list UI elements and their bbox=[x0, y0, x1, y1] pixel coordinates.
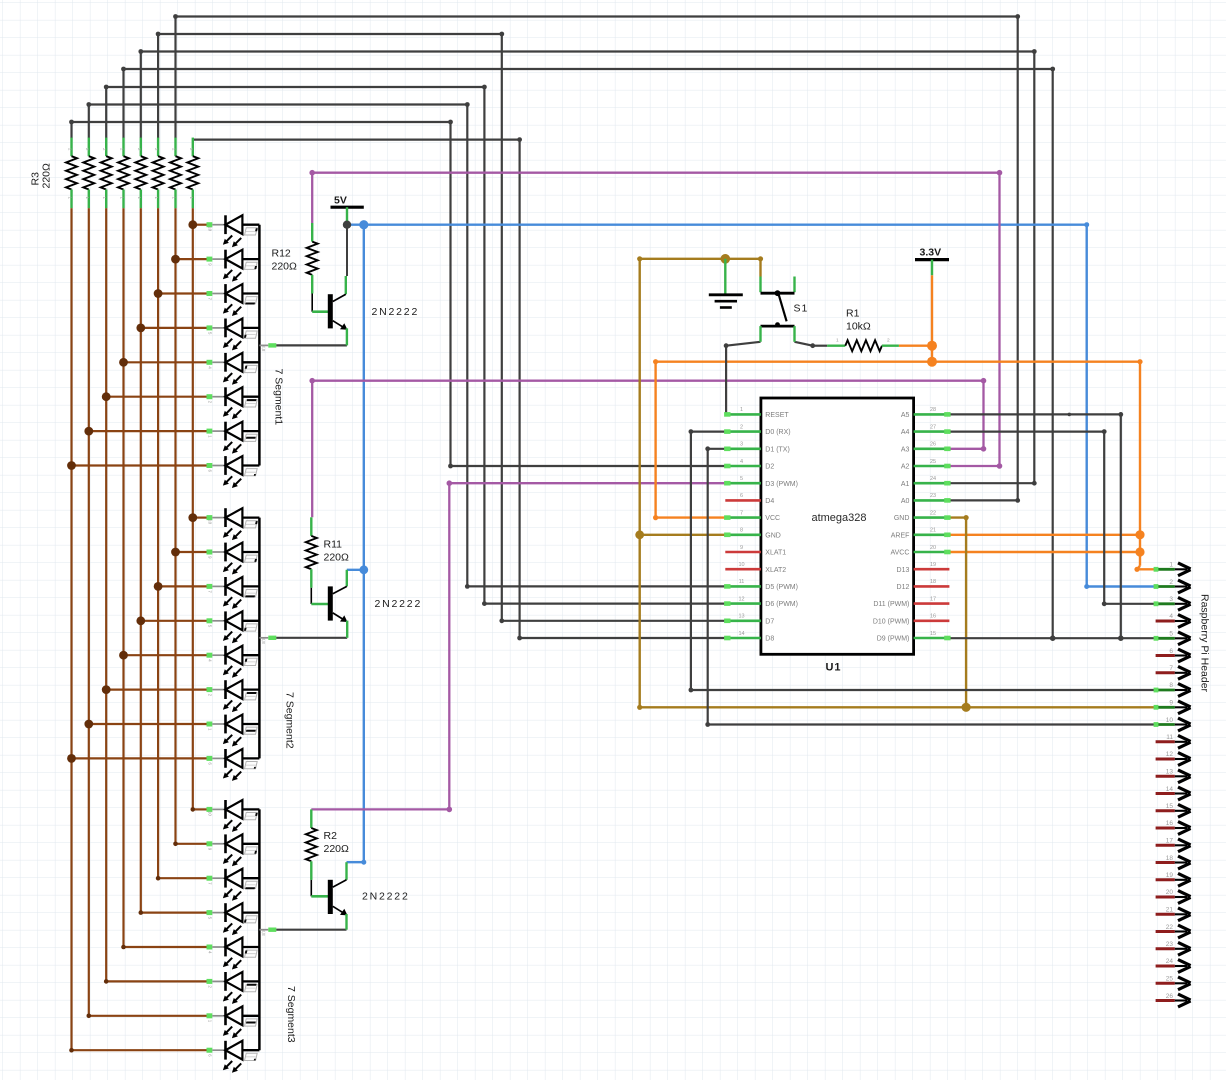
svg-text:23: 23 bbox=[1166, 941, 1174, 948]
svg-text:26: 26 bbox=[1166, 993, 1174, 1000]
svg-text:XLAT2: XLAT2 bbox=[765, 567, 786, 574]
svg-text:13: 13 bbox=[738, 614, 744, 620]
svg-text:1: 1 bbox=[740, 407, 743, 413]
svg-text:AREF: AREF bbox=[891, 532, 910, 539]
svg-text:10kΩ: 10kΩ bbox=[846, 321, 871, 333]
svg-text:2: 2 bbox=[1169, 579, 1173, 586]
svg-text:R11: R11 bbox=[324, 539, 343, 551]
svg-text:16: 16 bbox=[930, 614, 936, 620]
svg-text:D2: D2 bbox=[765, 464, 774, 471]
svg-text:10: 10 bbox=[208, 811, 213, 817]
svg-text:4: 4 bbox=[1169, 613, 1173, 620]
svg-text:D12: D12 bbox=[897, 584, 910, 591]
svg-text:R1: R1 bbox=[846, 308, 860, 320]
svg-text:7: 7 bbox=[740, 510, 743, 516]
svg-text:D3 (PWM): D3 (PWM) bbox=[765, 481, 798, 488]
svg-text:5: 5 bbox=[740, 476, 743, 482]
svg-text:5: 5 bbox=[1169, 631, 1173, 638]
svg-text:22: 22 bbox=[930, 510, 936, 516]
svg-text:D7: D7 bbox=[765, 618, 774, 625]
svg-text:D9 (PWM): D9 (PWM) bbox=[877, 636, 910, 643]
svg-text:1: 1 bbox=[1169, 562, 1173, 569]
svg-text:A5: A5 bbox=[901, 412, 910, 419]
svg-text:2: 2 bbox=[887, 338, 890, 344]
svg-text:21: 21 bbox=[1166, 907, 1174, 914]
svg-text:D5 (PWM): D5 (PWM) bbox=[765, 584, 798, 591]
svg-text:3.3V: 3.3V bbox=[920, 247, 942, 259]
svg-text:3,8: 3,8 bbox=[261, 929, 266, 936]
svg-text:10: 10 bbox=[738, 562, 744, 568]
svg-text:4: 4 bbox=[740, 459, 743, 465]
svg-text:5V: 5V bbox=[334, 194, 347, 206]
svg-text:D8: D8 bbox=[765, 636, 774, 643]
svg-text:AVCC: AVCC bbox=[890, 550, 909, 557]
svg-text:A4: A4 bbox=[901, 429, 910, 436]
svg-text:19: 19 bbox=[1166, 872, 1174, 879]
svg-text:A3: A3 bbox=[901, 446, 910, 453]
svg-text:24: 24 bbox=[1166, 958, 1174, 965]
svg-text:220Ω: 220Ω bbox=[324, 552, 350, 564]
svg-text:15: 15 bbox=[930, 631, 936, 637]
svg-text:26: 26 bbox=[930, 442, 936, 448]
svg-text:3,8: 3,8 bbox=[261, 345, 266, 352]
svg-text:6: 6 bbox=[1169, 648, 1173, 655]
svg-text:RESET: RESET bbox=[765, 412, 789, 419]
svg-text:9: 9 bbox=[740, 545, 743, 551]
svg-text:D6 (PWM): D6 (PWM) bbox=[765, 601, 798, 608]
svg-text:A2: A2 bbox=[901, 464, 910, 471]
svg-text:220Ω: 220Ω bbox=[324, 843, 350, 855]
svg-text:D0 (RX): D0 (RX) bbox=[765, 429, 790, 436]
svg-text:GND: GND bbox=[765, 532, 781, 539]
svg-text:14: 14 bbox=[738, 631, 744, 637]
svg-text:25: 25 bbox=[1166, 976, 1174, 983]
svg-text:XLAT1: XLAT1 bbox=[765, 550, 786, 557]
svg-text:18: 18 bbox=[930, 579, 936, 585]
svg-text:D11 (PWM): D11 (PWM) bbox=[873, 601, 909, 608]
svg-text:U1: U1 bbox=[825, 662, 841, 674]
svg-text:220Ω: 220Ω bbox=[272, 261, 298, 273]
svg-text:D4: D4 bbox=[765, 498, 774, 505]
svg-text:10: 10 bbox=[1166, 717, 1174, 724]
svg-text:14: 14 bbox=[1166, 786, 1174, 793]
svg-text:2: 2 bbox=[740, 424, 743, 430]
svg-text:7 Segment1: 7 Segment1 bbox=[273, 369, 285, 426]
svg-text:1: 1 bbox=[836, 338, 839, 344]
svg-text:8: 8 bbox=[1169, 682, 1173, 689]
svg-text:24: 24 bbox=[930, 476, 936, 482]
svg-text:7 Segment2: 7 Segment2 bbox=[284, 692, 296, 749]
svg-text:GND: GND bbox=[894, 515, 910, 522]
svg-text:7 Segment3: 7 Segment3 bbox=[285, 986, 297, 1043]
svg-text:16: 16 bbox=[1166, 820, 1174, 827]
svg-text:21: 21 bbox=[930, 528, 936, 534]
svg-text:Raspberry Pi Header: Raspberry Pi Header bbox=[1199, 594, 1211, 693]
svg-text:19: 19 bbox=[930, 562, 936, 568]
svg-text:VCC: VCC bbox=[765, 515, 780, 522]
svg-text:8: 8 bbox=[740, 528, 743, 534]
svg-text:R12: R12 bbox=[272, 248, 291, 260]
svg-text:2N2222: 2N2222 bbox=[375, 598, 423, 610]
svg-text:11: 11 bbox=[1166, 734, 1173, 741]
svg-text:10: 10 bbox=[208, 519, 213, 525]
svg-text:22: 22 bbox=[1166, 924, 1174, 931]
svg-text:3: 3 bbox=[1169, 596, 1173, 603]
svg-text:atmega328: atmega328 bbox=[811, 512, 866, 524]
svg-text:R2: R2 bbox=[324, 830, 338, 842]
svg-text:13: 13 bbox=[1166, 769, 1174, 776]
svg-text:9: 9 bbox=[1169, 700, 1173, 707]
svg-text:12: 12 bbox=[738, 596, 744, 602]
svg-text:20: 20 bbox=[930, 545, 936, 551]
svg-text:18: 18 bbox=[1166, 855, 1174, 862]
svg-text:A1: A1 bbox=[901, 481, 910, 488]
svg-text:15: 15 bbox=[1166, 803, 1174, 810]
svg-text:220Ω: 220Ω bbox=[41, 163, 53, 189]
svg-text:3,8: 3,8 bbox=[261, 638, 266, 645]
svg-text:D1 (TX): D1 (TX) bbox=[765, 446, 790, 453]
svg-text:2N2222: 2N2222 bbox=[362, 891, 410, 903]
svg-text:S1: S1 bbox=[794, 303, 809, 315]
svg-text:3: 3 bbox=[740, 442, 743, 448]
svg-text:28: 28 bbox=[930, 407, 936, 413]
svg-text:17: 17 bbox=[1166, 838, 1174, 845]
svg-text:2N2222: 2N2222 bbox=[372, 306, 420, 318]
svg-text:17: 17 bbox=[930, 596, 936, 602]
svg-text:23: 23 bbox=[930, 493, 936, 499]
svg-text:6: 6 bbox=[740, 493, 743, 499]
svg-text:A0: A0 bbox=[901, 498, 910, 505]
svg-text:20: 20 bbox=[1166, 889, 1174, 896]
svg-text:10: 10 bbox=[208, 226, 213, 232]
svg-text:25: 25 bbox=[930, 459, 936, 465]
svg-text:7: 7 bbox=[1169, 665, 1173, 672]
svg-text:12: 12 bbox=[1166, 751, 1174, 758]
svg-text:11: 11 bbox=[739, 579, 745, 585]
svg-text:D10 (PWM): D10 (PWM) bbox=[873, 618, 910, 625]
svg-text:27: 27 bbox=[930, 424, 936, 430]
svg-text:D13: D13 bbox=[897, 567, 910, 574]
